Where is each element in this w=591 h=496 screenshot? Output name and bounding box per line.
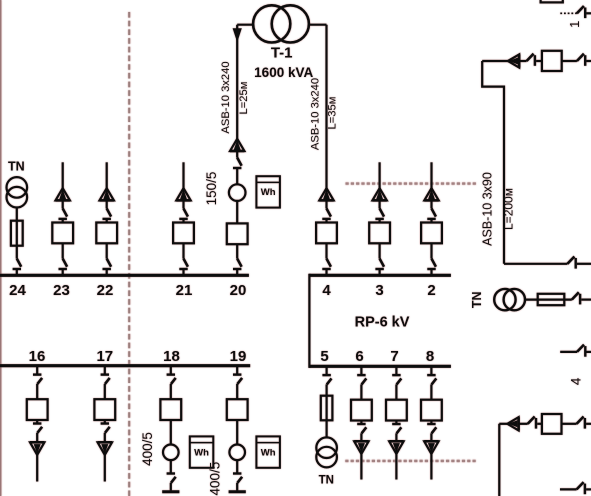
svg-text:24: 24 [9,282,26,299]
svg-text:Wh: Wh [194,447,209,458]
svg-text:L=35м: L=35м [326,97,338,130]
svg-text:8: 8 [426,348,434,365]
svg-text:RP-6 kV: RP-6 kV [355,315,410,331]
svg-text:2: 2 [427,282,435,299]
svg-text:18: 18 [163,348,180,365]
svg-text:L=25м: L=25м [238,82,250,115]
svg-text:150/5: 150/5 [204,172,219,206]
svg-text:Wh: Wh [261,447,276,458]
svg-text:21: 21 [176,282,193,299]
svg-text:ASB-10 3x90: ASB-10 3x90 [481,172,495,246]
svg-text:TN: TN [470,291,484,308]
svg-text:1600 kVA: 1600 kVA [254,65,313,80]
svg-text:16: 16 [29,348,46,365]
svg-text:5: 5 [320,348,328,365]
svg-text:23: 23 [53,282,70,299]
svg-text:6: 6 [355,348,363,365]
svg-text:22: 22 [97,282,114,299]
svg-text:TN: TN [8,160,25,174]
svg-text:400/5: 400/5 [140,432,155,466]
svg-text:3: 3 [375,282,383,299]
svg-text:19: 19 [230,348,247,365]
svg-text:20: 20 [230,282,247,299]
svg-text:ASB-10 3x240: ASB-10 3x240 [309,78,321,150]
svg-text:1: 1 [567,21,582,28]
svg-text:TN: TN [319,475,334,487]
svg-text:400/5: 400/5 [208,462,223,496]
svg-text:L=200м: L=200м [502,188,516,230]
svg-text:4: 4 [569,377,584,385]
svg-text:7: 7 [390,348,398,365]
svg-text:T-1: T-1 [271,45,293,62]
svg-text:4: 4 [322,282,331,299]
svg-text:17: 17 [96,348,113,365]
svg-text:ASB-10 3x240: ASB-10 3x240 [220,61,232,133]
svg-text:Wh: Wh [261,187,276,198]
